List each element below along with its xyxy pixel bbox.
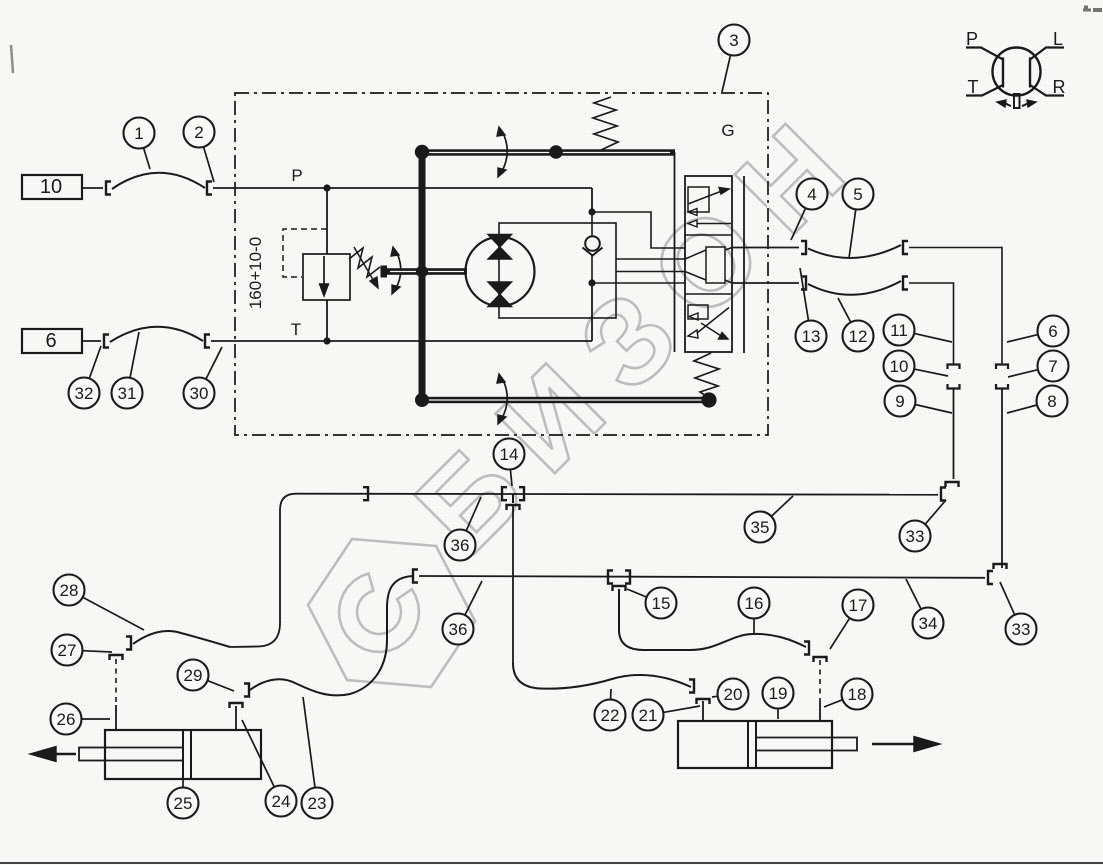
thick bottom bus [420, 397, 709, 403]
svg-text:32: 32 [75, 384, 94, 403]
relief valve label [246, 237, 265, 309]
callout 7 [1008, 351, 1069, 382]
tank box 10 [22, 175, 82, 199]
svg-text:17: 17 [849, 596, 868, 615]
svg-text:2: 2 [194, 123, 203, 142]
wire long line 35 [296, 494, 938, 495]
svg-text:12: 12 [849, 327, 868, 346]
wire port 26 [115, 705, 117, 730]
callout 32 [69, 346, 102, 409]
svg-text:16: 16 [745, 594, 764, 613]
callout 21 [633, 700, 701, 731]
dashes to port 18 [819, 660, 821, 701]
svg-text:31: 31 [118, 384, 137, 403]
callout 18 [824, 679, 873, 710]
node bottom-left [415, 393, 429, 407]
svg-text:25: 25 [174, 794, 193, 813]
svg-text:3: 3 [729, 31, 738, 50]
wire relief bottom [326, 300, 328, 341]
svg-text:34: 34 [919, 614, 938, 633]
elbow 33 lower [988, 564, 1007, 584]
callout 6 [1007, 316, 1069, 347]
svg-text:36: 36 [451, 536, 470, 555]
fitting 2a [106, 182, 111, 195]
motor shaft end [381, 266, 388, 278]
callout 23 [302, 697, 333, 819]
node bottom-right [701, 392, 716, 407]
P line [236, 187, 592, 189]
svg-text:7: 7 [1048, 357, 1057, 376]
svg-text:T: T [291, 320, 301, 339]
wire to P port [213, 187, 236, 189]
svg-text:9: 9 [895, 392, 904, 411]
node cv-bottom [588, 279, 595, 286]
node cv-top [588, 208, 595, 215]
svg-text:35: 35 [751, 518, 770, 537]
callout 11 [884, 315, 953, 346]
rotation arrow top [497, 127, 507, 177]
callout 9 [885, 386, 953, 417]
label P [291, 166, 302, 185]
connector 10 (inline) [948, 365, 960, 389]
callout 4 [791, 179, 828, 241]
wire port L out [732, 247, 799, 249]
callout 26 [51, 704, 111, 735]
tee 15 [608, 571, 630, 592]
relief valve adjust arrow [354, 247, 378, 288]
svg-text:28: 28 [60, 581, 79, 600]
callout 29 [178, 660, 235, 692]
connector 36b [413, 570, 418, 583]
bottom page rule [0, 862, 1103, 864]
svg-text:5: 5 [853, 185, 862, 204]
watermark BIZON logo [308, 80, 888, 687]
callout 22 [595, 689, 626, 731]
label T [291, 320, 301, 339]
callout 34 [906, 579, 944, 639]
node P-relief [323, 184, 330, 191]
callout 2 [184, 117, 215, 183]
callout 33 [900, 500, 947, 552]
svg-text:19: 19 [769, 684, 788, 703]
rotation arrow bottom [497, 374, 507, 424]
svg-text:24: 24 [272, 792, 291, 811]
fitting 13 [801, 277, 806, 290]
tank box 6 [22, 329, 82, 353]
wire box10 to fitting [82, 187, 103, 189]
relief valve body [303, 254, 350, 300]
hose 5 [808, 245, 901, 258]
callout 35 [745, 496, 794, 543]
wire motor portB [616, 271, 686, 273]
svg-text:30: 30 [190, 384, 209, 403]
T line [236, 340, 592, 342]
fitting 12b [903, 277, 908, 290]
callout 28 [54, 575, 145, 631]
svg-text:18: 18 [848, 685, 867, 704]
callout 30 [184, 347, 223, 409]
svg-text:10: 10 [890, 357, 909, 376]
svg-text:27: 27 [58, 641, 77, 660]
motor bowtie top [488, 235, 512, 260]
callout 16 [739, 588, 770, 636]
dashes to port 26 [115, 659, 117, 705]
svg-text:33: 33 [1012, 620, 1031, 639]
svg-text:8: 8 [1047, 392, 1056, 411]
thick vertical bus [419, 149, 426, 401]
motor bowtie bottom [488, 282, 512, 307]
svg-text:23: 23 [308, 794, 327, 813]
callout 17 [830, 590, 874, 650]
wire tee14 down [512, 505, 514, 663]
tee 14 [502, 487, 524, 510]
svg-text:P: P [966, 29, 978, 49]
bottom spring [694, 353, 719, 397]
callout 1 [124, 118, 155, 170]
callout 10 [884, 351, 949, 382]
hose 22 wave [513, 663, 691, 689]
wire port R out [732, 282, 799, 284]
hose 23 [250, 576, 413, 695]
svg-text:36: 36 [449, 620, 468, 639]
svg-text:13: 13 [802, 327, 821, 346]
callout 3 [719, 25, 750, 93]
relief pilot dashes [283, 229, 327, 277]
svg-text:6: 6 [1048, 322, 1057, 341]
check valve V1 [583, 236, 603, 255]
hose 31 [110, 327, 203, 342]
svg-text:1: 1 [134, 124, 143, 143]
fitting 5b [903, 241, 908, 254]
svg-text:33: 33 [906, 527, 925, 546]
callout 15 [627, 588, 677, 619]
motor circle M1 [466, 237, 535, 306]
svg-text:14: 14 [500, 445, 519, 464]
elbow 17 [804, 642, 827, 663]
elbow 33 upper [941, 482, 959, 501]
hose 1 [112, 173, 205, 189]
top spring [593, 97, 618, 150]
fitting 30 [205, 335, 210, 348]
wire to T port [211, 340, 236, 342]
callout 19 [763, 678, 794, 720]
node shaft-bus [416, 266, 428, 278]
svg-text:R: R [1053, 77, 1066, 97]
elbow 29 [230, 684, 250, 709]
arrow right [872, 737, 940, 752]
hose 16 [619, 589, 806, 650]
callout 36 [443, 581, 483, 645]
spool valve block [685, 176, 732, 352]
callout 24 [242, 720, 297, 817]
relief valve arrow [320, 256, 329, 296]
wire S-bend [230, 494, 296, 647]
svg-text:L: L [1053, 29, 1063, 49]
svg-text:11: 11 [890, 321, 908, 340]
arrow left [30, 747, 76, 762]
callout 31 [112, 332, 143, 409]
callout 8 [1007, 386, 1068, 417]
spool rail [743, 176, 745, 353]
svg-text:10: 10 [40, 176, 62, 198]
wire to mid corner [909, 283, 954, 365]
svg-text:G: G [721, 121, 734, 140]
label G [721, 121, 734, 140]
elbow 27 [110, 637, 132, 661]
relief valve spring [349, 248, 380, 277]
cylinder 25 [79, 730, 261, 779]
lever diagram P-L-T-R [966, 29, 1066, 108]
wire top bus down [674, 152, 676, 352]
svg-text:4: 4 [807, 185, 816, 204]
elbow 20/21 [689, 680, 710, 705]
hose 28 [133, 631, 230, 647]
callout 25 [168, 780, 199, 819]
page corner marks top-right [1083, 7, 1102, 10]
svg-text:29: 29 [184, 666, 203, 685]
wire right corner lower [1001, 388, 1003, 568]
wire tank return [592, 282, 686, 284]
svg-text:6: 6 [45, 330, 56, 352]
callout 36 [445, 497, 482, 561]
callout 12 [838, 298, 874, 352]
wire check valve line [591, 212, 593, 283]
wire cv-bottom down [591, 283, 593, 341]
wire mid corner lower [953, 388, 955, 479]
svg-text:22: 22 [601, 706, 620, 725]
wire box6 to fitting [82, 340, 101, 342]
svg-text:T: T [968, 77, 979, 97]
wire port 18 [819, 701, 821, 721]
svg-text:20: 20 [724, 685, 743, 704]
rotation arrow shaft [391, 247, 401, 294]
cylinder 19 [678, 721, 857, 768]
svg-text:160+10-0: 160+10-0 [246, 237, 265, 309]
wire port rc-left [702, 701, 704, 721]
motor enclosure box [499, 223, 616, 318]
node top-left [415, 145, 429, 159]
callout 13 [796, 268, 827, 352]
node top-mid [549, 145, 563, 159]
connector 36a [363, 487, 368, 500]
node T-relief [323, 337, 330, 344]
callout 33 [1000, 582, 1037, 645]
wire to right corner [909, 248, 1002, 366]
thick top bus [418, 149, 675, 155]
wire P corner down [591, 188, 593, 212]
svg-text:21: 21 [639, 706, 658, 725]
svg-text:26: 26 [57, 710, 76, 729]
fitting 2b [207, 182, 212, 195]
wire long line 34 [419, 576, 985, 578]
connector 7 (inline) [996, 365, 1008, 389]
page corner mark top-left [11, 45, 13, 73]
fitting 4 [801, 241, 806, 254]
enclosure box item 3 (dash-dot) [235, 93, 768, 435]
wire port 24 [235, 706, 237, 730]
callout 27 [52, 635, 113, 666]
wire relief top [326, 188, 328, 254]
motor shaft [387, 268, 467, 275]
callout 14 [494, 439, 525, 487]
svg-text:15: 15 [652, 594, 671, 613]
callout 20 [712, 679, 749, 710]
wire motor portA [616, 258, 686, 260]
hose 12 [808, 281, 901, 295]
wire cv-top right [592, 212, 686, 248]
callout 5 [843, 179, 874, 259]
svg-text:P: P [291, 166, 302, 185]
fitting 32 [104, 335, 109, 348]
